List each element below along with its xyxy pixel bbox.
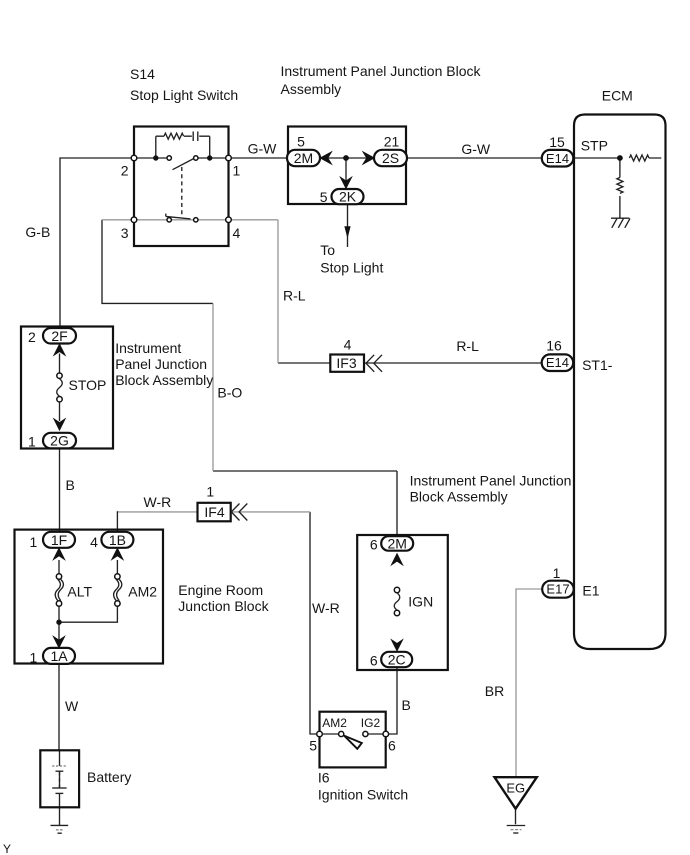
svg-text:Stop Light Switch: Stop Light Switch: [130, 87, 238, 103]
svg-text:6: 6: [388, 737, 396, 753]
svg-text:4: 4: [90, 534, 98, 550]
svg-text:2S: 2S: [382, 150, 399, 166]
svg-text:16: 16: [546, 338, 562, 354]
svg-text:1: 1: [233, 163, 241, 179]
svg-text:1: 1: [28, 434, 36, 450]
svg-text:E14: E14: [546, 151, 569, 166]
svg-text:1: 1: [30, 534, 38, 550]
svg-text:4: 4: [344, 337, 352, 353]
svg-text:IF4: IF4: [204, 504, 224, 520]
svg-text:To: To: [320, 242, 335, 258]
svg-text:6: 6: [370, 537, 378, 553]
svg-text:B: B: [66, 477, 75, 493]
svg-text:B-O: B-O: [217, 385, 242, 401]
svg-text:Assembly: Assembly: [281, 81, 342, 97]
svg-text:1: 1: [30, 649, 38, 665]
svg-text:IG2: IG2: [361, 716, 381, 730]
svg-text:E14: E14: [546, 355, 569, 370]
svg-text:5: 5: [320, 189, 328, 205]
svg-text:6: 6: [370, 653, 378, 669]
svg-text:S14: S14: [130, 66, 155, 82]
svg-text:Junction Block: Junction Block: [178, 598, 269, 614]
svg-text:4: 4: [233, 225, 241, 241]
svg-text:Block Assembly: Block Assembly: [115, 372, 213, 388]
svg-text:G-W: G-W: [248, 141, 278, 157]
svg-text:5: 5: [309, 737, 317, 753]
svg-text:ST1-: ST1-: [582, 357, 613, 373]
svg-text:B: B: [402, 697, 411, 713]
svg-text:R-L: R-L: [283, 287, 306, 303]
svg-text:5: 5: [297, 134, 305, 150]
svg-text:Y: Y: [3, 842, 11, 855]
svg-text:Instrument: Instrument: [115, 340, 181, 356]
svg-text:2G: 2G: [50, 433, 69, 449]
svg-text:2C: 2C: [388, 651, 406, 667]
svg-text:1: 1: [206, 484, 214, 500]
svg-text:STOP: STOP: [69, 377, 107, 393]
svg-text:E1: E1: [582, 582, 599, 598]
svg-text:ECM: ECM: [602, 88, 633, 104]
svg-text:15: 15: [549, 134, 565, 150]
svg-text:STP: STP: [581, 138, 608, 154]
svg-text:AM2: AM2: [128, 584, 157, 600]
svg-text:W: W: [65, 698, 79, 714]
svg-text:2: 2: [121, 163, 129, 179]
svg-text:Instrument Panel Junction Bloc: Instrument Panel Junction Block: [281, 63, 482, 79]
svg-text:21: 21: [384, 134, 400, 150]
svg-text:Battery: Battery: [87, 769, 131, 785]
svg-text:1B: 1B: [109, 532, 126, 548]
svg-text:1A: 1A: [50, 648, 68, 664]
svg-text:Stop Light: Stop Light: [320, 260, 383, 276]
svg-text:Block Assembly: Block Assembly: [410, 489, 508, 505]
svg-text:I6: I6: [318, 770, 330, 786]
svg-text:W-R: W-R: [312, 600, 340, 616]
svg-text:1F: 1F: [51, 532, 67, 548]
svg-text:Engine Room: Engine Room: [178, 582, 263, 598]
svg-text:AM2: AM2: [322, 716, 347, 730]
svg-text:Panel Junction: Panel Junction: [115, 356, 207, 372]
svg-text:3: 3: [121, 225, 129, 241]
svg-text:IGN: IGN: [408, 593, 433, 609]
svg-text:2M: 2M: [387, 535, 406, 551]
svg-text:BR: BR: [485, 683, 504, 699]
svg-text:2K: 2K: [339, 189, 357, 205]
svg-text:IF3: IF3: [336, 355, 356, 371]
svg-text:2F: 2F: [51, 328, 67, 344]
svg-text:W-R: W-R: [144, 494, 172, 510]
svg-text:E17: E17: [546, 582, 569, 597]
svg-text:2: 2: [28, 329, 36, 345]
svg-text:ALT: ALT: [67, 584, 92, 600]
svg-text:2M: 2M: [294, 150, 313, 166]
svg-text:G-B: G-B: [25, 224, 50, 240]
svg-text:R-L: R-L: [456, 338, 479, 354]
svg-text:1: 1: [553, 565, 561, 581]
svg-text:Instrument Panel Junction: Instrument Panel Junction: [410, 472, 572, 488]
svg-text:EG: EG: [506, 781, 525, 796]
svg-text:Ignition Switch: Ignition Switch: [318, 787, 408, 803]
svg-text:G-W: G-W: [461, 141, 491, 157]
